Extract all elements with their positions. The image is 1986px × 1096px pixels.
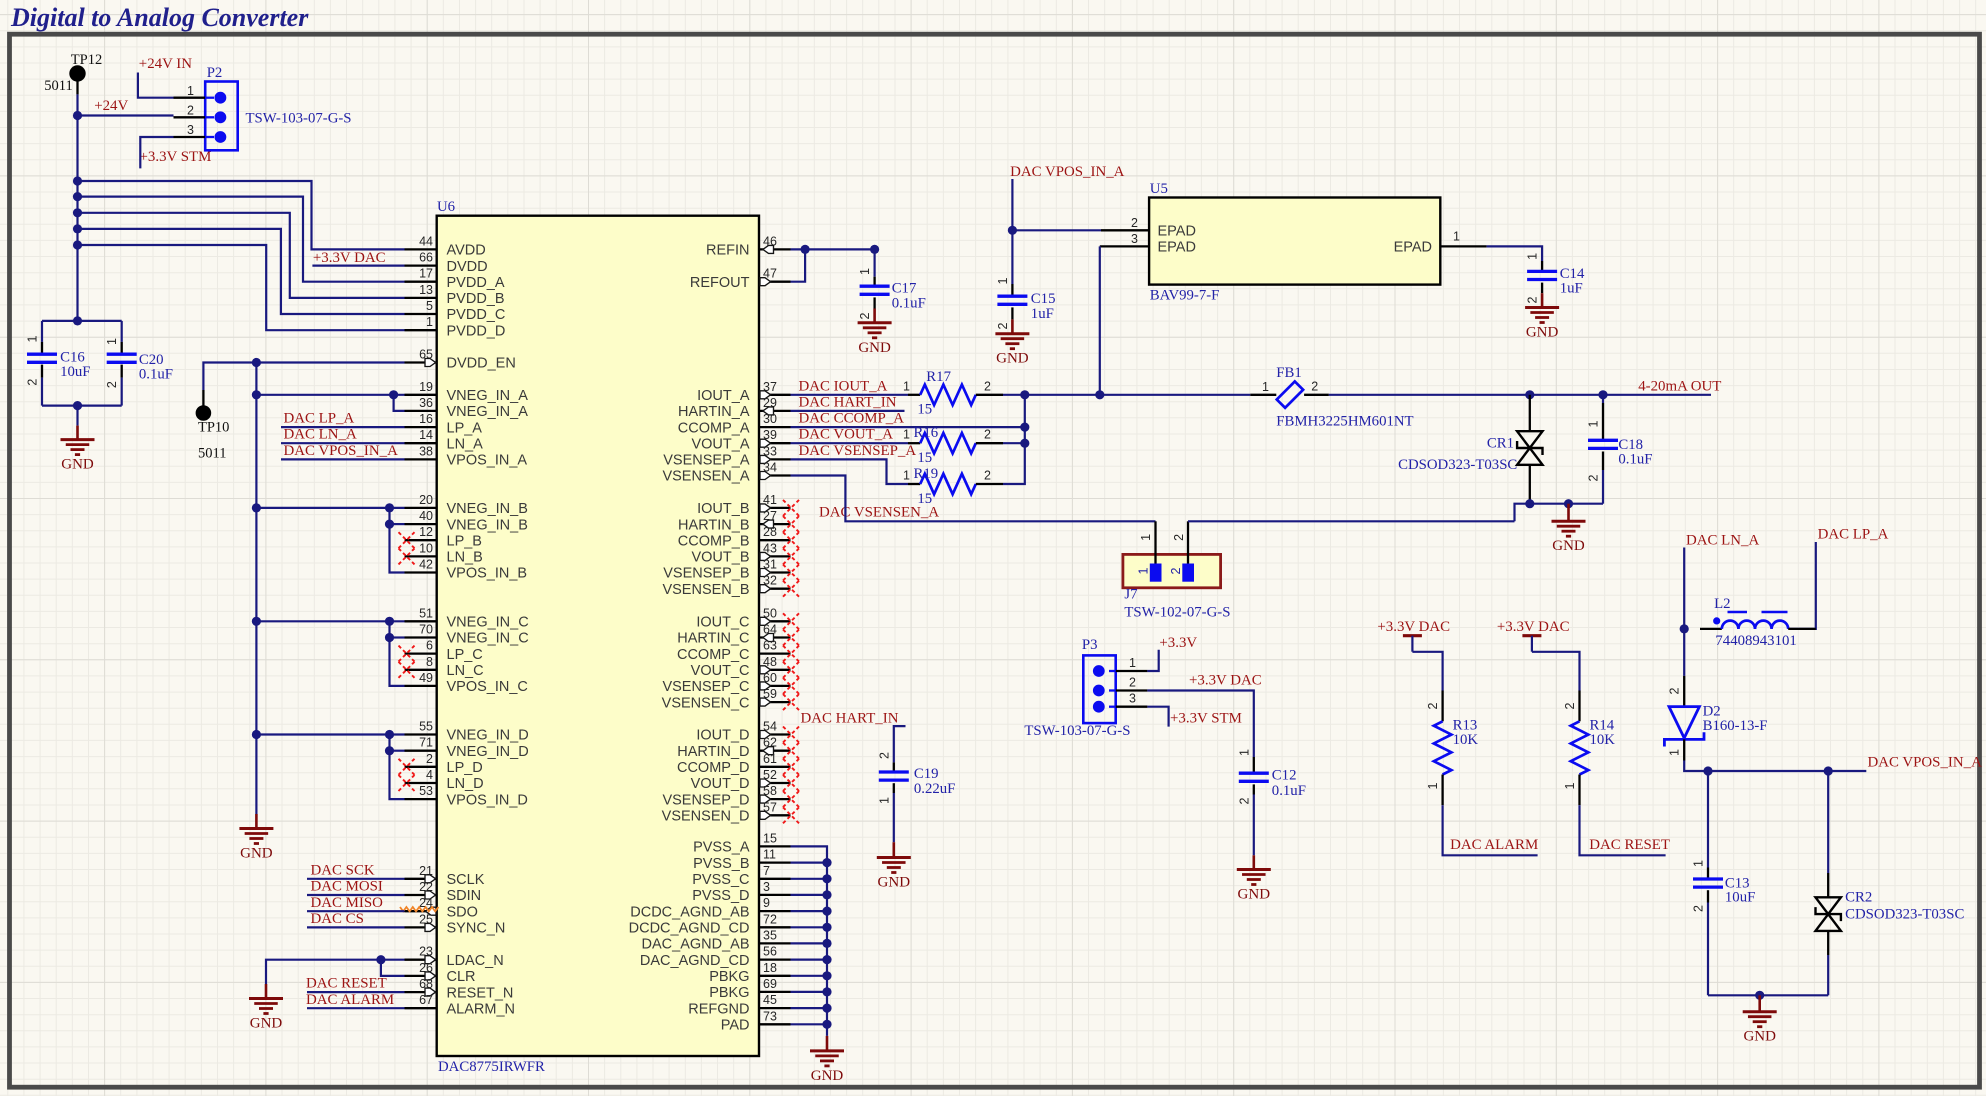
U6 pin 46 REFIN: [759, 248, 791, 250]
svg-text:15: 15: [917, 402, 932, 418]
svg-text:TP10: TP10: [198, 420, 229, 436]
wire PBKG to bus: [791, 991, 828, 993]
capacitor C19: [893, 762, 895, 772]
wire VNEG jog: [390, 621, 405, 686]
wire VNEG jog: [390, 508, 405, 573]
svg-text:51: 51: [419, 606, 433, 620]
svg-text:DVDD_EN: DVDD_EN: [447, 356, 516, 372]
svg-text:PBKG: PBKG: [709, 985, 749, 1001]
U6 pin 5 PVDD_C: [405, 313, 437, 315]
svg-text:DAC MOSI: DAC MOSI: [311, 879, 383, 895]
wire bus to VNEG pin: [256, 507, 404, 509]
wire DAC MOSI: [307, 894, 405, 896]
svg-text:IOUT_A: IOUT_A: [697, 388, 750, 404]
wire output bus A: [1024, 395, 1026, 443]
IC U5 body: [1149, 198, 1440, 285]
resistor R14: [1578, 691, 1580, 722]
U6 pin 27 HARTIN_B: [759, 523, 791, 525]
svg-text:VSENSEP_D: VSENSEP_D: [662, 792, 749, 808]
U6 pin 62 HARTIN_D: [759, 750, 791, 752]
U6 pin 19 VNEG_IN_A: [405, 394, 437, 396]
U6 pin 25 SYNC_N: [405, 926, 437, 928]
junction power bus: [73, 224, 82, 233]
no-ERC cross: [783, 791, 799, 807]
svg-text:PVSS_C: PVSS_C: [692, 872, 749, 888]
svg-text:EPAD: EPAD: [1158, 240, 1196, 256]
svg-text:J7: J7: [1124, 587, 1137, 603]
J7 pin 2: [1187, 521, 1189, 566]
svg-text:56: 56: [763, 945, 777, 959]
U6 pin 45 REFGND: [759, 1007, 791, 1009]
inductor L2: [1700, 628, 1722, 630]
svg-text:0.1uF: 0.1uF: [1618, 452, 1652, 468]
svg-text:42: 42: [419, 558, 433, 572]
no-ERC cross: [783, 516, 799, 532]
U5 pin 3 EPAD: [1100, 245, 1149, 247]
svg-text:+3.3V DAC: +3.3V DAC: [1189, 672, 1262, 688]
svg-text:DAC RESET: DAC RESET: [1589, 837, 1670, 853]
svg-text:B160-13-F: B160-13-F: [1703, 718, 1768, 734]
svg-text:38: 38: [419, 444, 433, 458]
wire DAC LP_A: [281, 426, 405, 428]
wire DAC HART_IN stub: [791, 410, 905, 412]
svg-text:IOUT_C: IOUT_C: [696, 615, 749, 631]
svg-text:0.1uF: 0.1uF: [139, 367, 173, 383]
wire PBKG to bus: [791, 975, 828, 977]
wire DAC SCK: [307, 878, 405, 880]
wire VNEG2 stub: [390, 750, 405, 752]
ferrite bead FB1: [1250, 394, 1276, 396]
wire to pin65: [256, 361, 404, 363]
svg-text:2: 2: [105, 381, 119, 388]
svg-text:LN_A: LN_A: [447, 436, 484, 452]
svg-text:VSENSEP_A: VSENSEP_A: [663, 453, 750, 469]
U6 pin 47 REFOUT: [759, 281, 791, 283]
svg-text:U5: U5: [1150, 181, 1168, 197]
svg-text:LP_D: LP_D: [447, 760, 483, 776]
no-ERC cross: [783, 565, 799, 581]
test point TP12: [69, 65, 85, 81]
U6 pin 41 IOUT_B: [759, 507, 791, 509]
svg-text:FBMH3225HM601NT: FBMH3225HM601NT: [1276, 413, 1413, 429]
svg-text:VPOS_IN_D: VPOS_IN_D: [447, 792, 528, 808]
svg-text:PAD: PAD: [721, 1018, 750, 1034]
U6 pin 59 VSENSEN_C: [759, 701, 791, 703]
svg-text:10K: 10K: [1590, 732, 1616, 748]
svg-text:2: 2: [426, 752, 433, 766]
ground GND C13: [1758, 995, 1761, 1011]
svg-text:71: 71: [419, 736, 433, 750]
svg-text:49: 49: [419, 671, 433, 685]
svg-text:2: 2: [1668, 687, 1682, 694]
U6 pin 68 RESET_N: [405, 991, 437, 993]
junction VNEG bus: [252, 617, 261, 626]
svg-text:GND: GND: [858, 340, 891, 356]
U6 pin 21 SCLK: [405, 878, 437, 880]
capacitor C12: [1253, 757, 1255, 773]
U6 pin 11 PVSS_B: [759, 861, 791, 863]
wire R19 to bus: [1003, 443, 1025, 484]
wire REFOUT riser: [791, 249, 806, 281]
no-ERC cross: [399, 759, 415, 775]
svg-text:SDIN: SDIN: [447, 888, 482, 904]
svg-text:6: 6: [426, 639, 433, 653]
svg-text:DAC VPOS_IN_A: DAC VPOS_IN_A: [284, 443, 399, 459]
svg-text:VSENSEP_C: VSENSEP_C: [662, 679, 749, 695]
wire cap top rail: [42, 320, 122, 322]
svg-text:40: 40: [419, 509, 433, 523]
svg-text:1: 1: [1129, 656, 1136, 670]
U6 pin 67 ALARM_N: [405, 1007, 437, 1009]
no-ERC cross: [783, 630, 799, 646]
svg-text:DCDC_AGND_CD: DCDC_AGND_CD: [629, 921, 750, 937]
wire to U6 power pin: [78, 181, 405, 249]
junction PVSS bus: [822, 1004, 831, 1013]
svg-text:HARTIN_B: HARTIN_B: [678, 517, 749, 533]
svg-text:1uF: 1uF: [1560, 280, 1583, 296]
capacitor C17: [873, 249, 875, 276]
wire DAC MISO: [307, 910, 405, 912]
svg-text:REFGND: REFGND: [688, 1001, 749, 1017]
svg-text:GND: GND: [61, 457, 94, 473]
wire DAC VPOS_IN_A left: [281, 458, 405, 460]
U6 pin 8 LN_C: [405, 669, 437, 671]
ground GND PVSS: [826, 1036, 829, 1051]
svg-text:14: 14: [419, 428, 433, 442]
connector P3 body: [1083, 655, 1115, 723]
svg-text:3: 3: [763, 880, 770, 894]
wire +24V to P2 pin2: [78, 114, 174, 116]
svg-text:VNEG_IN_D: VNEG_IN_D: [447, 744, 529, 760]
svg-text:36: 36: [419, 396, 433, 410]
U6 pin 20 VNEG_IN_B: [405, 507, 437, 509]
svg-text:1uF: 1uF: [1031, 306, 1054, 322]
no-ERC cross: [783, 500, 799, 516]
U6 pin 63 CCOMP_C: [759, 652, 791, 654]
U6 pin 49 VPOS_IN_C: [405, 685, 437, 687]
wire VSENSEP_A to R19: [791, 459, 909, 484]
junction CCOMP: [1020, 423, 1029, 432]
svg-text:19: 19: [419, 380, 433, 394]
svg-text:DAC SCK: DAC SCK: [311, 862, 375, 878]
junction PVSS bus: [822, 923, 831, 932]
U6 pin 51 VNEG_IN_C: [405, 620, 437, 622]
svg-text:PVSS_D: PVSS_D: [692, 888, 749, 904]
svg-text:LP_C: LP_C: [447, 647, 483, 663]
svg-text:C15: C15: [1031, 291, 1056, 307]
svg-text:2: 2: [1172, 534, 1186, 541]
U6 pin 57 VSENSEN_D: [759, 814, 791, 816]
svg-text:0.1uF: 0.1uF: [892, 296, 926, 312]
no-ERC cross: [783, 775, 799, 791]
U6 pin 39 VOUT_A: [759, 442, 791, 444]
svg-text:DAC_AGND_CD: DAC_AGND_CD: [640, 953, 750, 969]
svg-text:2: 2: [984, 428, 991, 442]
ground GND LDAC: [265, 984, 268, 999]
svg-text:2: 2: [1311, 379, 1318, 393]
svg-text:DAC VOUT_A: DAC VOUT_A: [799, 427, 894, 443]
svg-text:15: 15: [763, 831, 777, 845]
junction R16 out: [1020, 439, 1029, 448]
U6 pin 10 LN_B: [405, 555, 437, 557]
wire VNEG bus: [255, 363, 257, 815]
resistor R17: [908, 394, 920, 396]
svg-text:VNEG_IN_A: VNEG_IN_A: [447, 388, 529, 404]
svg-text:GND: GND: [250, 1016, 283, 1032]
svg-text:C20: C20: [139, 352, 164, 368]
U6 pin 4 LN_D: [405, 782, 437, 784]
svg-text:DCDC_AGND_AB: DCDC_AGND_AB: [630, 904, 749, 920]
svg-text:CDSOD323-T03SC: CDSOD323-T03SC: [1845, 906, 1964, 922]
U6 pin 69 PBKG: [759, 991, 791, 993]
svg-text:2: 2: [996, 322, 1010, 329]
error squiggle pin24: [400, 907, 438, 911]
svg-text:2: 2: [1426, 702, 1440, 709]
wire R14 bottom: [1580, 805, 1666, 855]
svg-text:VPOS_IN_C: VPOS_IN_C: [447, 679, 528, 695]
P3 pin 2: [1116, 689, 1148, 691]
ground GND C17: [873, 309, 876, 323]
connector P2 body: [205, 82, 238, 151]
IC U6 body: [437, 216, 759, 1056]
no-ERC cross: [783, 581, 799, 597]
svg-text:REFOUT: REFOUT: [690, 275, 750, 291]
ground GND C16: [76, 426, 79, 440]
svg-text:30: 30: [763, 412, 777, 426]
svg-text:DAC LP_A: DAC LP_A: [284, 411, 355, 427]
svg-text:VSENSEP_B: VSENSEP_B: [663, 566, 749, 582]
U6 pin 16 LP_A: [405, 426, 437, 428]
junction VNEG pair: [385, 617, 394, 626]
svg-text:CCOMP_C: CCOMP_C: [677, 647, 750, 663]
svg-text:3: 3: [1131, 232, 1138, 246]
svg-text:12: 12: [419, 525, 433, 539]
U6 pin 73 PAD: [759, 1023, 791, 1025]
svg-text:2: 2: [1587, 474, 1601, 481]
svg-text:VNEG_IN_C: VNEG_IN_C: [447, 615, 529, 631]
wire PVSS bus: [791, 846, 828, 1036]
junction U5pin3: [1095, 390, 1104, 399]
junction PVSS bus: [822, 907, 831, 916]
svg-text:61: 61: [763, 752, 777, 766]
svg-text:BAV99-7-F: BAV99-7-F: [1150, 288, 1220, 304]
U6 pin 22 SDIN: [405, 894, 437, 896]
capacitor C13: [1707, 771, 1709, 868]
wire to U6 power pin: [78, 197, 405, 282]
U6 pin 9 DCDC_AGND_AB: [759, 910, 791, 912]
wire to U6 power pin: [78, 245, 405, 330]
wire C13 CR2 bottom: [1708, 994, 1828, 996]
svg-text:SYNC_N: SYNC_N: [447, 921, 506, 937]
svg-text:2: 2: [984, 469, 991, 483]
svg-text:SCLK: SCLK: [447, 872, 485, 888]
wire PVSS_B to bus: [791, 861, 828, 863]
svg-text:LDAC_N: LDAC_N: [447, 953, 504, 969]
svg-text:2: 2: [1563, 702, 1577, 709]
svg-text:VOUT_A: VOUT_A: [691, 436, 749, 452]
svg-text:VPOS_IN_A: VPOS_IN_A: [447, 453, 528, 469]
wire U5 pin3 to output: [1099, 246, 1101, 394]
junction VNEG2: [385, 746, 394, 755]
U6 pin 55 VNEG_IN_D: [405, 733, 437, 735]
svg-text:DAC VPOS_IN_A: DAC VPOS_IN_A: [1868, 755, 1983, 771]
svg-text:DVDD: DVDD: [447, 259, 488, 275]
junction power bus: [73, 240, 82, 249]
svg-text:PBKG: PBKG: [709, 969, 749, 985]
resistor R13: [1441, 691, 1443, 722]
svg-text:C12: C12: [1272, 768, 1297, 784]
U6 pin 61 CCOMP_D: [759, 766, 791, 768]
svg-text:DAC LN_A: DAC LN_A: [284, 427, 357, 443]
svg-text:1: 1: [1587, 420, 1601, 427]
ground GND CR1: [1567, 504, 1570, 522]
resistor R16: [908, 442, 920, 444]
svg-text:1: 1: [426, 315, 433, 329]
svg-text:2: 2: [877, 752, 891, 759]
svg-text:L2: L2: [1714, 596, 1730, 612]
svg-text:1: 1: [1526, 253, 1540, 260]
svg-text:+3.3V: +3.3V: [1159, 635, 1197, 651]
ground GND C15: [1011, 319, 1014, 333]
U6 pin 12 LP_B: [405, 539, 437, 541]
U6 pin 56 DAC_AGND_CD: [759, 958, 791, 960]
svg-text:1: 1: [1668, 749, 1682, 756]
junction power bus: [73, 192, 82, 201]
wire IOUT_A to R17: [791, 394, 909, 396]
svg-text:73: 73: [763, 1009, 777, 1023]
no-ERC cross: [783, 759, 799, 775]
svg-text:GND: GND: [240, 846, 273, 862]
U6 pin 13 PVDD_B: [405, 297, 437, 299]
wire J7 pin2 to CR1: [1188, 520, 1515, 522]
wire bus to VNEG pin: [256, 394, 404, 396]
wire CR1 C18 bottom: [1515, 504, 1604, 522]
svg-text:DAC8775IRWFR: DAC8775IRWFR: [438, 1059, 545, 1075]
wire VOUT_A to R16: [791, 442, 909, 444]
svg-text:28: 28: [763, 525, 777, 539]
wire PAD to bus: [791, 1023, 828, 1025]
svg-text:PVSS_B: PVSS_B: [693, 856, 749, 872]
svg-text:1: 1: [105, 338, 119, 345]
no-ERC cross: [783, 727, 799, 743]
svg-text:0.22uF: 0.22uF: [914, 781, 956, 797]
svg-text:PVDD_D: PVDD_D: [447, 323, 506, 339]
junction VNEG pair: [385, 503, 394, 512]
svg-text:1: 1: [187, 84, 194, 98]
P3 pin 3: [1116, 706, 1148, 708]
svg-text:2: 2: [984, 379, 991, 393]
svg-text:VOUT_D: VOUT_D: [691, 776, 750, 792]
svg-text:1: 1: [1563, 782, 1577, 789]
U6 pin 38 VPOS_IN_A: [405, 458, 437, 460]
connector J7 body: [1123, 554, 1221, 587]
svg-text:4-20mA OUT: 4-20mA OUT: [1638, 379, 1721, 395]
svg-text:2: 2: [858, 312, 872, 319]
svg-text:18: 18: [763, 961, 777, 975]
U6 pin 28 CCOMP_B: [759, 539, 791, 541]
junction VNEG bus: [252, 503, 261, 512]
svg-text:Digital to Analog Converter: Digital to Analog Converter: [10, 3, 309, 32]
resistor R19: [908, 483, 920, 485]
wire DAC RESET left: [307, 991, 405, 993]
svg-text:RESET_N: RESET_N: [447, 985, 514, 1001]
svg-text:66: 66: [419, 251, 433, 265]
svg-text:20: 20: [419, 493, 433, 507]
U6 pin 53 VPOS_IN_D: [405, 798, 437, 800]
svg-text:DAC HART_IN: DAC HART_IN: [801, 711, 899, 727]
U6 pin 24 SDO: [405, 910, 437, 912]
capacitor C18: [1602, 395, 1604, 403]
test point TP10: [196, 405, 212, 421]
svg-text:PVDD_C: PVDD_C: [447, 307, 506, 323]
diode CR2 TVS: [1827, 771, 1829, 873]
svg-text:63: 63: [763, 639, 777, 653]
U6 pin 32 VSENSEN_B: [759, 588, 791, 590]
junction R17 bus: [1020, 390, 1029, 399]
U6 pin 60 VSENSEP_C: [759, 685, 791, 687]
U6 pin 66 DVDD: [405, 264, 437, 266]
power +3.3V DAC R14: [1522, 634, 1541, 637]
svg-text:DAC HART_IN: DAC HART_IN: [799, 394, 897, 410]
U6 pin 6 LP_C: [405, 652, 437, 654]
svg-text:EPAD: EPAD: [1158, 224, 1196, 240]
U6 pin 40 VNEG_IN_B: [405, 523, 437, 525]
junction VNEG2: [385, 633, 394, 642]
U6 pin 70 VNEG_IN_C: [405, 636, 437, 638]
svg-text:C16: C16: [60, 350, 85, 366]
svg-text:+3.3V DAC: +3.3V DAC: [1377, 619, 1450, 635]
no-ERC cross: [783, 646, 799, 662]
no-ERC cross: [783, 532, 799, 548]
svg-text:5011: 5011: [44, 78, 72, 94]
no-ERC cross: [399, 548, 415, 564]
svg-text:U6: U6: [437, 199, 455, 215]
svg-text:1: 1: [1136, 567, 1150, 574]
svg-text:R16: R16: [914, 425, 939, 441]
svg-text:LP_B: LP_B: [447, 533, 482, 549]
svg-text:7: 7: [763, 864, 770, 878]
no-ERC cross: [399, 646, 415, 662]
wire R16 to bus: [1003, 442, 1025, 444]
U6 pin 34 VSENSEN_A: [759, 474, 791, 476]
svg-text:1: 1: [996, 277, 1010, 284]
svg-text:VNEG_IN_D: VNEG_IN_D: [447, 728, 529, 744]
svg-text:74408943101: 74408943101: [1715, 633, 1796, 649]
junction VNEG bus: [252, 390, 261, 399]
U6 pin 36 VNEG_IN_A: [405, 410, 437, 412]
svg-text:DAC VSENSEP_A: DAC VSENSEP_A: [799, 443, 917, 459]
svg-text:1: 1: [26, 335, 40, 342]
svg-text:CR1: CR1: [1487, 436, 1514, 452]
wire DAC LP_A down: [1788, 542, 1816, 629]
svg-text:53: 53: [419, 784, 433, 798]
svg-text:GND: GND: [1743, 1029, 1776, 1045]
junction PVSS bus: [822, 939, 831, 948]
J7 pin 1: [1154, 521, 1156, 566]
P2 pin 1: [174, 97, 206, 99]
wire R13 top: [1412, 652, 1442, 691]
svg-text:72: 72: [763, 912, 777, 926]
capacitor C16: [41, 321, 43, 342]
svg-text:2: 2: [1526, 296, 1540, 303]
junction cap bottom: [73, 401, 82, 410]
junction C13 top: [1703, 766, 1712, 775]
wire DAC_AGND_AB to bus: [791, 942, 828, 944]
U6 pin 71 VNEG_IN_D: [405, 750, 437, 752]
U6 pin 48 VOUT_C: [759, 669, 791, 671]
svg-text:GND: GND: [878, 875, 911, 891]
svg-text:VSENSEN_D: VSENSEN_D: [662, 809, 750, 825]
